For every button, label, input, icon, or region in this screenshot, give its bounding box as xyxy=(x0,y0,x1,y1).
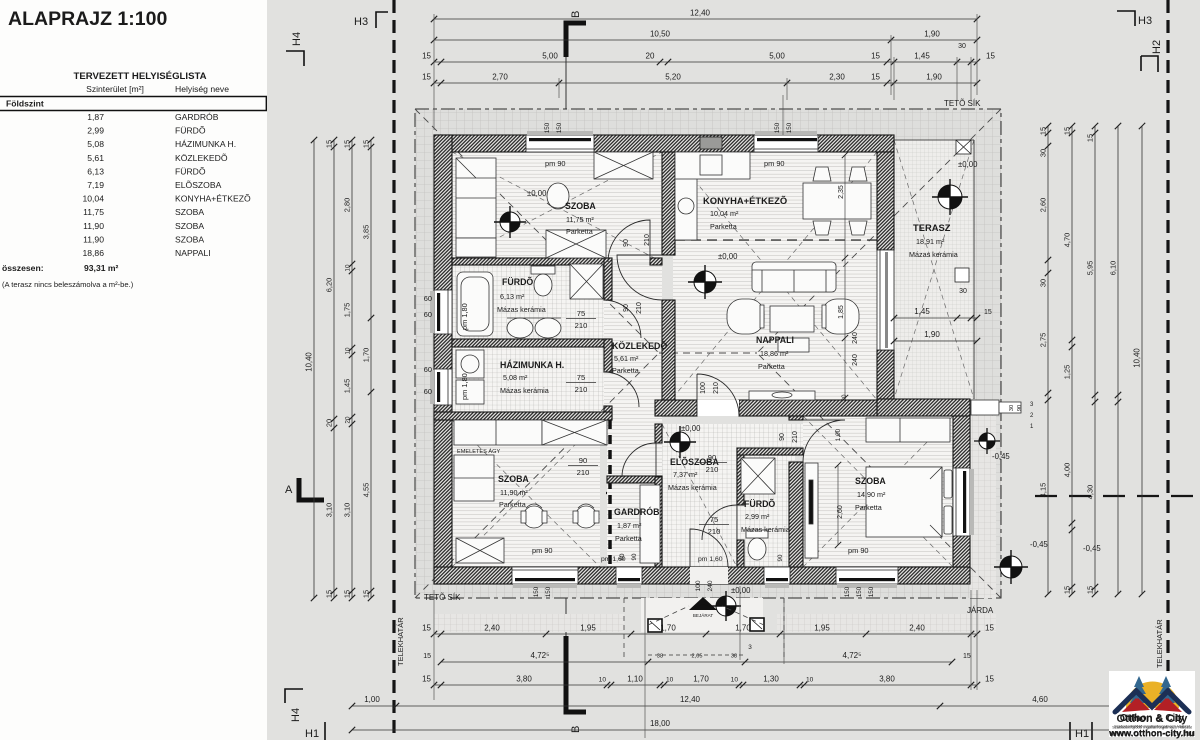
svg-text:4,15: 4,15 xyxy=(1039,483,1048,497)
svg-text:1,45: 1,45 xyxy=(914,52,930,61)
svg-text:15: 15 xyxy=(963,653,971,660)
svg-text:5,95: 5,95 xyxy=(1086,261,1095,275)
svg-text:HÁZIMUNKA H.: HÁZIMUNKA H. xyxy=(500,360,564,370)
left dim chain 10,40 xyxy=(313,140,315,598)
svg-text:1,10: 1,10 xyxy=(627,675,643,684)
svg-text:FÜRDÕ: FÜRDÕ xyxy=(175,166,206,176)
svg-text:GARDRÓB: GARDRÓB xyxy=(614,506,659,517)
porch dashed outline xyxy=(624,598,784,660)
svg-text:30: 30 xyxy=(1009,405,1015,411)
svg-text:15: 15 xyxy=(422,624,431,633)
roof dashed diagonals xyxy=(415,109,1001,598)
hazimunka right wall xyxy=(604,339,612,372)
svg-text:2,60: 2,60 xyxy=(1039,198,1048,212)
JARDA sidewalk texture right xyxy=(970,416,996,598)
svg-text:-0,45: -0,45 xyxy=(1030,540,1048,549)
furdo shower xyxy=(570,264,603,299)
svg-text:15: 15 xyxy=(1086,586,1095,594)
terasz floor xyxy=(894,140,974,399)
svg-text:KÖZLEKEDÕ: KÖZLEKEDÕ xyxy=(612,341,667,351)
FURDO2 tiles xyxy=(737,455,795,567)
svg-text:1,25: 1,25 xyxy=(1063,365,1072,379)
svg-text:150: 150 xyxy=(545,586,552,597)
svg-text:90: 90 xyxy=(631,553,638,560)
right dim chain 6,10 xyxy=(1117,126,1119,594)
svg-text:150: 150 xyxy=(774,122,781,133)
furdo/hazimunka wall xyxy=(452,339,612,347)
svg-text:SZOBA: SZOBA xyxy=(565,201,596,211)
svg-text:2,40: 2,40 xyxy=(909,624,925,633)
svg-text:Mázas kerámia: Mázas kerámia xyxy=(668,483,717,492)
svg-text:90: 90 xyxy=(777,554,784,561)
svg-text:30: 30 xyxy=(1039,149,1048,157)
svg-text:15: 15 xyxy=(422,52,431,61)
terasz small square mid xyxy=(955,268,969,282)
extension lines top xyxy=(433,14,435,130)
svg-text:Mázas kerámia: Mázas kerámia xyxy=(500,386,549,395)
svg-text:SZOBA: SZOBA xyxy=(175,221,204,231)
svg-text:90: 90 xyxy=(708,453,716,462)
svg-text:±0,00: ±0,00 xyxy=(718,252,738,261)
svg-text:210: 210 xyxy=(708,527,721,536)
svg-text:2,80: 2,80 xyxy=(343,198,352,212)
top dim row 15/5,00/20/5,00/15/1,45/30/15 xyxy=(434,61,977,63)
GARDROB parquet xyxy=(607,424,662,567)
wall right lower block xyxy=(953,416,970,567)
svg-text:KONYHA+ÉTKEZÕ: KONYHA+ÉTKEZÕ xyxy=(175,194,251,204)
svg-text:pm 1,80: pm 1,80 xyxy=(460,303,469,330)
svg-text:90: 90 xyxy=(623,304,630,312)
svg-text:5,00: 5,00 xyxy=(769,52,785,61)
svg-text:SZOBA: SZOBA xyxy=(175,207,204,217)
svg-text:11,75 m²: 11,75 m² xyxy=(566,215,594,224)
svg-text:7,19: 7,19 xyxy=(87,180,104,190)
svg-text:TERVEZETT HELYISÉGLISTA: TERVEZETT HELYISÉGLISTA xyxy=(73,70,206,82)
konyha counter xyxy=(675,152,697,240)
svg-text:10: 10 xyxy=(666,677,674,684)
door konyha/center wall xyxy=(617,255,662,300)
svg-text:12,40: 12,40 xyxy=(690,9,711,18)
svg-text:Parketta: Parketta xyxy=(499,500,526,509)
svg-text:pm 90: pm 90 xyxy=(532,546,553,555)
svg-text:15: 15 xyxy=(362,140,371,148)
svg-text:1,00: 1,00 xyxy=(835,428,842,441)
bottom dim row 15/2,40/1,95/1,70/1,70/1,95/2,40/15 xyxy=(434,633,977,635)
svg-text:11,75: 11,75 xyxy=(83,207,104,217)
svg-text:10: 10 xyxy=(599,677,607,684)
svg-text:H1: H1 xyxy=(305,728,319,740)
svg-text:15: 15 xyxy=(423,653,431,660)
svg-text:KÖZLEKEDÕ: KÖZLEKEDÕ xyxy=(175,153,228,163)
left white panel xyxy=(0,0,267,740)
svg-text:4,30: 4,30 xyxy=(1086,485,1095,499)
svg-text:210: 210 xyxy=(575,321,588,330)
svg-text:150: 150 xyxy=(544,122,551,133)
svg-text:5,20: 5,20 xyxy=(665,73,681,82)
door furdo1 xyxy=(604,300,641,338)
svg-text:Parketta: Parketta xyxy=(615,534,642,543)
svg-text:6,10: 6,10 xyxy=(1109,261,1118,275)
entrance door opening xyxy=(690,567,728,584)
furdo2 shower xyxy=(741,458,775,494)
top dim row 12,40 xyxy=(434,18,977,20)
svg-text:15: 15 xyxy=(325,590,334,598)
level marks xyxy=(527,160,1101,595)
svg-text:4,72⁵: 4,72⁵ xyxy=(531,651,550,660)
svg-text:H3: H3 xyxy=(1138,15,1152,27)
svg-text:10,04: 10,04 xyxy=(82,194,104,204)
marker H3 top-left xyxy=(376,12,388,28)
svg-text:KONYHA+ÉTKEZÕ: KONYHA+ÉTKEZÕ xyxy=(703,195,787,206)
section marker A left xyxy=(285,478,324,500)
svg-text:60: 60 xyxy=(424,294,432,303)
svg-text:10: 10 xyxy=(345,347,352,355)
svg-text:30: 30 xyxy=(959,288,967,295)
right dim chain 15/5,95/4,30/15 xyxy=(1094,126,1096,594)
logo Otthon & City xyxy=(1109,671,1195,739)
szoba tl crossed box bottom xyxy=(546,230,606,258)
svg-text:2,70: 2,70 xyxy=(492,73,508,82)
szoba tl lamp xyxy=(547,183,569,209)
eloszoba/furdo2 wall xyxy=(737,455,744,505)
svg-text:12,40: 12,40 xyxy=(680,695,701,704)
svg-text:ELÕSZOBA: ELÕSZOBA xyxy=(175,180,222,190)
svg-text:Parketta: Parketta xyxy=(612,366,639,375)
interior dim chain konyha/nappali xyxy=(842,152,848,401)
wall bottom xyxy=(434,567,970,584)
entrance door xyxy=(690,529,728,567)
svg-text:75: 75 xyxy=(577,309,585,318)
terasz dim 1,45/30/15 xyxy=(894,317,977,319)
svg-text:15: 15 xyxy=(1063,127,1072,135)
coffee table xyxy=(770,306,814,332)
svg-text:Szinterület [m²]: Szinterület [m²] xyxy=(86,84,144,94)
svg-text:Parketta: Parketta xyxy=(855,503,882,512)
svg-text:SZOBA: SZOBA xyxy=(855,476,886,486)
svg-text:15: 15 xyxy=(871,73,880,82)
furdo2/szoba br wall xyxy=(789,416,803,420)
nappali sofa xyxy=(752,262,836,292)
plot boundary TELEKHATAR right xyxy=(1166,0,1169,740)
left dim chain 15/2,80/10/1,75/10/1,45/20/3,10/15 xyxy=(351,140,353,598)
svg-text:15: 15 xyxy=(422,73,431,82)
svg-text:18,91 m²: 18,91 m² xyxy=(916,237,945,246)
hall strip above FURDO2 xyxy=(737,424,803,455)
svg-text:1,70: 1,70 xyxy=(660,624,676,633)
window konyha top xyxy=(754,135,818,152)
svg-text:4,00: 4,00 xyxy=(1063,463,1072,477)
svg-text:20: 20 xyxy=(646,52,655,61)
right dim chain 15/4,70/1,25/4,00/15 xyxy=(1071,126,1073,594)
svg-text:pm 90: pm 90 xyxy=(848,546,869,555)
furdo wc xyxy=(531,266,555,274)
svg-text:210: 210 xyxy=(706,465,719,474)
KOZLEKEDO parquet xyxy=(604,265,662,424)
svg-text:H3: H3 xyxy=(354,16,368,28)
svg-text:18,86: 18,86 xyxy=(82,248,104,258)
nappali armchairs xyxy=(727,299,764,334)
svg-text:240: 240 xyxy=(852,332,859,344)
dining table xyxy=(803,183,871,219)
svg-text:11,90 m²: 11,90 m² xyxy=(500,488,528,497)
furdo tub xyxy=(457,272,493,336)
svg-text:150: 150 xyxy=(556,122,563,133)
szoba tl bottom wall xyxy=(452,258,608,265)
window extension line xyxy=(782,95,784,135)
furdo sinks xyxy=(507,318,533,338)
svg-text:11,90: 11,90 xyxy=(83,221,104,231)
svg-text:1,87 m²: 1,87 m² xyxy=(617,521,642,530)
wall top xyxy=(434,135,894,152)
marker H3 top-right xyxy=(1117,11,1135,26)
svg-text:60: 60 xyxy=(424,387,432,396)
right dim chain 15/30/2,60/30/2,75/4,15 xyxy=(1047,126,1049,594)
svg-text:FÜRDÕ: FÜRDÕ xyxy=(502,277,533,287)
svg-text:15: 15 xyxy=(1086,134,1095,142)
svg-text:2,75: 2,75 xyxy=(1039,333,1048,347)
svg-text:10: 10 xyxy=(806,677,814,684)
section marker B top xyxy=(566,11,586,112)
svg-text:10,40: 10,40 xyxy=(1133,348,1142,368)
svg-text:15: 15 xyxy=(985,675,994,684)
szoba tl wardrobe left xyxy=(456,158,496,238)
left dim chain 15/3,85/1,70/4,55/15 xyxy=(370,140,372,598)
svg-text:15: 15 xyxy=(1039,127,1048,135)
szoba bl bunk bed xyxy=(454,420,542,445)
svg-text:15: 15 xyxy=(986,52,995,61)
svg-text:210: 210 xyxy=(792,431,799,443)
svg-text:FÜRDÕ: FÜRDÕ xyxy=(175,126,206,136)
svg-text:38: 38 xyxy=(731,654,737,660)
center vertical wall xyxy=(662,152,675,255)
HAZIMUNKA tiles xyxy=(452,347,604,412)
svg-text:Földszint: Földszint xyxy=(6,99,44,109)
bottom dim row 4,72/38/2,05/38/4,72 xyxy=(441,661,952,663)
terasz sliding door opening xyxy=(877,250,894,350)
window szoba br bottom xyxy=(836,567,898,584)
svg-text:5,08: 5,08 xyxy=(87,139,104,149)
hazimunka washer xyxy=(456,350,484,378)
svg-text:1,70: 1,70 xyxy=(693,675,709,684)
svg-text:pm 1,60: pm 1,60 xyxy=(698,556,723,563)
svg-text:Parketta: Parketta xyxy=(758,362,785,371)
svg-text:210: 210 xyxy=(713,382,720,394)
porch columns xyxy=(648,619,662,632)
svg-text:pm 1,80: pm 1,80 xyxy=(460,373,469,400)
svg-text:3,80: 3,80 xyxy=(879,675,895,684)
svg-text:38: 38 xyxy=(657,654,663,660)
svg-text:2,99: 2,99 xyxy=(87,126,104,136)
svg-text:1,90: 1,90 xyxy=(924,30,940,39)
svg-text:11,90: 11,90 xyxy=(83,234,104,244)
left dim chain 15/6,20/20/3,10/15 xyxy=(333,140,335,598)
terasz dim 1,90 xyxy=(894,340,977,342)
svg-text:1,45: 1,45 xyxy=(343,379,352,393)
svg-text:GARDRÓB: GARDRÓB xyxy=(175,112,219,122)
svg-text:20: 20 xyxy=(325,419,334,427)
svg-text:1,87: 1,87 xyxy=(87,112,104,122)
extension lines bottom xyxy=(433,590,435,700)
svg-text:-0,45: -0,45 xyxy=(992,452,1010,461)
svg-text:90: 90 xyxy=(1017,405,1023,411)
svg-text:Otthon & City: Otthon & City xyxy=(1117,713,1189,725)
svg-text:TETÕ SÍK: TETÕ SÍK xyxy=(944,99,981,108)
svg-text:H4: H4 xyxy=(291,32,303,46)
svg-text:15: 15 xyxy=(343,590,352,598)
terasz corner column xyxy=(956,140,971,154)
window hazimunka left xyxy=(434,369,452,405)
svg-text:10: 10 xyxy=(731,677,739,684)
svg-text:3,10: 3,10 xyxy=(343,503,352,517)
svg-text:10: 10 xyxy=(345,264,352,272)
wall left xyxy=(434,135,452,584)
marker H4 bottom-left xyxy=(285,689,303,703)
svg-text:93,31 m²: 93,31 m² xyxy=(84,263,119,273)
marker H2 top-right xyxy=(1141,56,1158,72)
svg-text:2,35: 2,35 xyxy=(838,185,845,199)
BEJARAT arrow xyxy=(689,597,717,610)
svg-text:BEJÁRAT: BEJÁRAT xyxy=(693,612,714,618)
bottom dim row 1,00/12,40/4,60 xyxy=(352,705,1146,707)
svg-text:30: 30 xyxy=(1039,279,1048,287)
svg-text:15: 15 xyxy=(985,624,994,633)
svg-text:TELEKHATÁR: TELEKHATÁR xyxy=(1155,619,1164,668)
svg-text:60: 60 xyxy=(619,553,626,560)
svg-text:3,80: 3,80 xyxy=(516,675,532,684)
svg-text:6,13 m²: 6,13 m² xyxy=(500,292,525,301)
window szoba br right xyxy=(953,468,970,536)
svg-text:15: 15 xyxy=(871,52,880,61)
window furdo left xyxy=(434,290,452,334)
svg-text:3,10: 3,10 xyxy=(325,503,334,517)
door gardrob xyxy=(622,443,656,477)
svg-text:EMELETES ÁGY: EMELETES ÁGY xyxy=(457,448,500,455)
szoba bl crossed box xyxy=(456,538,504,563)
right dim chain 10,40 xyxy=(1141,126,1143,594)
gardrob walls xyxy=(607,476,662,483)
window szoba bl bottom xyxy=(512,567,578,584)
svg-text:6,13: 6,13 xyxy=(87,166,104,176)
szoba bl desks/chairs xyxy=(454,455,494,501)
svg-text:B: B xyxy=(570,726,582,733)
svg-text:210: 210 xyxy=(636,302,643,314)
window szoba tl top xyxy=(526,135,594,152)
szoba br wardrobe xyxy=(805,463,818,558)
svg-text:FÜRDÕ: FÜRDÕ xyxy=(744,499,775,509)
svg-text:30: 30 xyxy=(958,43,966,50)
svg-text:5,00: 5,00 xyxy=(542,52,558,61)
svg-text:2,05: 2,05 xyxy=(692,654,703,660)
wall terasz bottom / szoba top xyxy=(877,399,970,416)
szoba tl crossed wardrobe top xyxy=(594,152,653,179)
svg-text:150: 150 xyxy=(856,586,863,597)
chimney block top xyxy=(700,137,722,149)
roof outline TETO SIK dash-dot xyxy=(415,109,1001,598)
niche objects xyxy=(971,400,999,415)
svg-text:1,75: 1,75 xyxy=(343,303,352,317)
svg-text:15: 15 xyxy=(325,140,334,148)
szoba bl right wall xyxy=(608,420,612,567)
svg-text:150: 150 xyxy=(868,586,875,597)
furdo right wall xyxy=(604,258,612,300)
window sidelight left of entrance xyxy=(616,567,642,584)
svg-text:TETÕ SÍK: TETÕ SÍK xyxy=(424,593,461,602)
svg-text:1,70: 1,70 xyxy=(362,348,371,362)
svg-text:18,00: 18,00 xyxy=(650,719,671,728)
svg-text:1,90: 1,90 xyxy=(926,73,942,82)
svg-text:H4: H4 xyxy=(290,708,302,722)
tv board xyxy=(749,391,815,400)
svg-text:1,70: 1,70 xyxy=(735,624,751,633)
plot boundary TELEKHATAR left xyxy=(392,0,395,740)
svg-text:7,37 m²: 7,37 m² xyxy=(673,470,698,479)
svg-text:15: 15 xyxy=(343,140,352,148)
svg-text:3: 3 xyxy=(748,644,752,651)
svg-text:15: 15 xyxy=(362,590,371,598)
wall right upper (to terasz) xyxy=(877,152,894,250)
svg-text:Parketta: Parketta xyxy=(566,227,593,236)
svg-text:±0,00: ±0,00 xyxy=(731,586,751,595)
svg-text:150: 150 xyxy=(786,122,793,133)
svg-text:1,95: 1,95 xyxy=(814,624,830,633)
svg-text:14,90 m²: 14,90 m² xyxy=(857,490,886,499)
svg-text:összesen:: összesen: xyxy=(2,263,44,273)
top dim row 10,50 / 1,90 xyxy=(434,39,977,41)
svg-text:4,70: 4,70 xyxy=(1063,233,1072,247)
svg-text:5,61: 5,61 xyxy=(87,153,104,163)
svg-text:15: 15 xyxy=(422,675,431,684)
svg-text:Mázas kerámia: Mázas kerámia xyxy=(497,305,546,314)
SZOBA bottom-left parquet xyxy=(452,420,600,567)
svg-text:75: 75 xyxy=(710,515,718,524)
marker H4 top-left xyxy=(286,51,304,66)
svg-text:240: 240 xyxy=(707,580,714,591)
svg-text:5,08 m²: 5,08 m² xyxy=(503,373,528,382)
svg-text:±0,00: ±0,00 xyxy=(958,160,978,169)
svg-text:1,95: 1,95 xyxy=(580,624,596,633)
svg-text:90: 90 xyxy=(579,456,587,465)
svg-text:210: 210 xyxy=(575,385,588,394)
svg-text:SZOBA: SZOBA xyxy=(175,234,204,244)
svg-text:60: 60 xyxy=(424,310,432,319)
svg-text:Mázas kerámia: Mázas kerámia xyxy=(741,525,790,534)
svg-text:90: 90 xyxy=(779,433,786,441)
svg-text:Helyiség neve: Helyiség neve xyxy=(175,84,229,94)
svg-text:TERASZ: TERASZ xyxy=(913,222,951,233)
svg-text:±0,00: ±0,00 xyxy=(527,189,547,198)
svg-text:1,45: 1,45 xyxy=(914,307,930,316)
door szoba br xyxy=(803,420,845,462)
wall nappali bottom xyxy=(655,400,697,416)
svg-text:pm 90: pm 90 xyxy=(764,159,785,168)
svg-text:150: 150 xyxy=(844,586,851,597)
porch white xyxy=(641,598,763,632)
hazimunka bottom wall / szoba bl top xyxy=(434,412,612,420)
room diagonal marks xyxy=(452,140,974,567)
window right of entrance xyxy=(764,567,790,584)
svg-text:H2: H2 xyxy=(1151,40,1163,54)
svg-text:18,86 m²: 18,86 m² xyxy=(760,349,789,358)
svg-text:6,20: 6,20 xyxy=(325,278,334,292)
svg-text:100: 100 xyxy=(700,382,707,394)
bottom dim row 15/3,80/10/1,10/10/1,70/10/1,30/10/3,80/15 xyxy=(434,684,977,686)
svg-text:ALAPRAJZ 1:100: ALAPRAJZ 1:100 xyxy=(8,8,167,30)
svg-text:10,04 m²: 10,04 m² xyxy=(710,209,739,218)
svg-text:B: B xyxy=(570,11,582,18)
svg-text:A: A xyxy=(285,484,293,496)
svg-text:1,90: 1,90 xyxy=(924,330,940,339)
SZOBA top-left parquet xyxy=(452,152,662,262)
